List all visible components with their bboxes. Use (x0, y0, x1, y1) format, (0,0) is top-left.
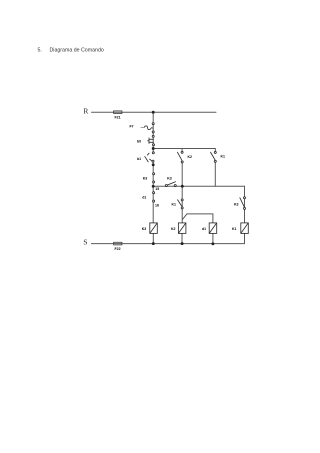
svg-text:F22: F22 (115, 247, 121, 251)
wire K3 coil to S (152, 233, 154, 243)
wire K2 coil branch down (181, 186, 183, 223)
svg-text:d1: d1 (202, 227, 206, 231)
coil d1 (209, 223, 217, 234)
svg-text:5.: 5. (38, 48, 42, 54)
coil K2 (178, 223, 186, 234)
wire K1 branch to bus (214, 161, 216, 186)
node junction S rail x213 (211, 242, 214, 245)
fuse F22 (114, 242, 122, 245)
svg-text:K3: K3 (234, 202, 239, 206)
wire K2 branch to bus (181, 162, 183, 186)
title: 5. Diagrama de Comando (38, 48, 104, 54)
contact K3 seal on main line (153, 173, 155, 183)
wire horizontal after b0 (153, 148, 215, 150)
coil K1 (241, 223, 249, 234)
node junction S rail x182 (181, 242, 184, 245)
wire R rail (92, 111, 217, 113)
svg-text:d1: d1 (142, 195, 146, 199)
node junction after b0 (152, 147, 155, 150)
svg-text:K3: K3 (143, 177, 148, 181)
wire K1 branch upper stem (214, 149, 216, 153)
svg-text:K1: K1 (232, 227, 237, 231)
wire d1 coil to S (212, 233, 214, 244)
svg-text:Diagrama de Comando: Diagrama de Comando (50, 48, 104, 54)
node junction bus with label 15 (152, 185, 155, 188)
svg-text:F21: F21 (115, 116, 121, 120)
node junction R drop (152, 111, 155, 114)
contact K1 top (210, 151, 216, 162)
svg-text:K2: K2 (188, 155, 193, 159)
wire bridge K2 to d1 (183, 214, 213, 223)
node junction bus x182 (181, 185, 184, 188)
svg-text:K1: K1 (221, 155, 226, 159)
wire K2 coil to S (181, 233, 183, 243)
svg-text:b1: b1 (137, 157, 141, 161)
node junction after b1 (152, 163, 155, 166)
wire right branch down (244, 186, 246, 223)
fuse F21 (114, 111, 122, 114)
svg-text:K3: K3 (167, 176, 172, 180)
svg-text:16: 16 (155, 204, 159, 208)
coil K3 (150, 223, 158, 234)
contact K1 on K2-coil branch (177, 199, 183, 209)
overload contact F7 (141, 123, 155, 133)
wire S rail (91, 243, 244, 245)
svg-text:R: R (83, 107, 88, 116)
svg-text:S: S (83, 238, 87, 247)
contact K3 horizontal (165, 182, 176, 187)
wire K2 branch upper stem (181, 149, 183, 153)
wire main vertical upper (152, 112, 154, 153)
svg-text:F7: F7 (130, 125, 134, 129)
wire main vertical lower (152, 161, 154, 223)
pushbutton b1 (NO) (145, 152, 155, 162)
svg-text:K3: K3 (142, 227, 147, 231)
svg-text:K2: K2 (171, 227, 176, 231)
svg-text:15: 15 (155, 187, 159, 191)
contact K3 on K1-coil branch (240, 197, 246, 210)
wire horizontal bus y186 (153, 185, 244, 187)
svg-text:b0: b0 (137, 139, 141, 143)
pushbutton b0 (NC) (147, 135, 154, 146)
node junction S rail x153 (152, 242, 155, 245)
wire K1 coil to S (244, 233, 246, 243)
svg-text:K1: K1 (172, 202, 177, 206)
contact d1 timer on main line (153, 192, 155, 202)
contact K2 top (177, 151, 183, 163)
